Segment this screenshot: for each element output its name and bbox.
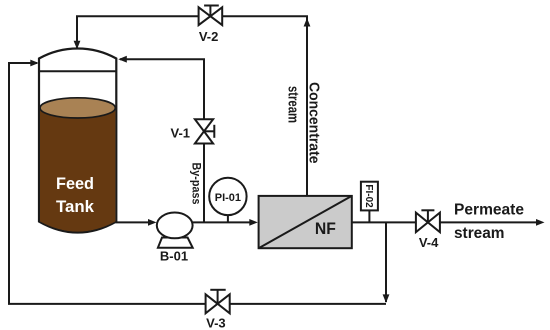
tank liquid body — [40, 108, 115, 232]
svg-text:PI-01: PI-01 — [215, 192, 241, 204]
arrow into NF — [249, 219, 257, 226]
wire permeate line — [352, 221, 537, 223]
tank liquid surface — [40, 98, 115, 118]
NF diagonal — [259, 196, 352, 248]
wire pump discharge to NF — [192, 221, 252, 223]
arrow concentrate up — [304, 18, 311, 27]
svg-text:Tank: Tank — [56, 197, 95, 216]
valve V-2 — [199, 6, 223, 26]
tank dome base line — [39, 70, 116, 72]
wire retentate drop to bottom line — [385, 222, 387, 302]
pump B-01 base — [158, 238, 193, 248]
svg-text:stream: stream — [454, 225, 505, 242]
svg-text:V-2: V-2 — [199, 29, 219, 44]
wire pump suction — [115, 221, 151, 223]
arrow permeate out — [536, 219, 545, 226]
wire by-pass line — [120, 59, 204, 222]
svg-text:Feed: Feed — [56, 174, 94, 193]
arrow down to bottom line — [383, 294, 390, 303]
svg-text:B-01: B-01 — [160, 249, 188, 264]
svg-text:V-1: V-1 — [170, 125, 190, 140]
svg-text:By-pass: By-pass — [190, 163, 202, 205]
instrument PI-01 stem — [227, 214, 229, 222]
pump B-01 casing — [157, 213, 193, 239]
arrow into pump — [148, 219, 157, 226]
valve V-1 — [195, 119, 214, 143]
valve V-4 — [416, 210, 440, 232]
arrow into tank left — [30, 60, 39, 67]
svg-text:Permeate: Permeate — [454, 202, 524, 219]
svg-text:FI-02: FI-02 — [363, 184, 374, 208]
wire left return line — [9, 63, 386, 304]
instrument FI-02 — [361, 182, 378, 211]
feed tank shell — [39, 49, 116, 233]
svg-text:NF: NF — [315, 219, 336, 238]
arrow into tank right — [118, 56, 127, 63]
membrane module NF — [259, 196, 352, 248]
svg-text:V-3: V-3 — [206, 316, 226, 330]
svg-text:V-4: V-4 — [419, 235, 439, 250]
instrument PI-01 — [209, 178, 246, 215]
valve V-3 — [206, 290, 230, 314]
instrument FI-02 stem — [368, 210, 370, 222]
arrow into tank top — [74, 41, 81, 50]
wire top recirculation line — [77, 16, 307, 196]
